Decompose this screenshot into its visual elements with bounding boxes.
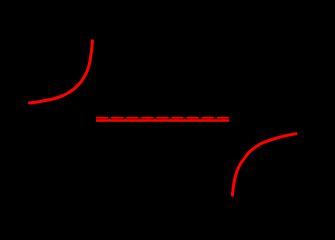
right branch of curve rising from vertical asymptote: [232, 134, 297, 197]
solid horizontal segment of function between asymptotes: [96, 119, 229, 121]
dashed horizontal asymptote line: [96, 117, 229, 119]
left branch of curve rising to vertical asymptote: [28, 40, 92, 104]
